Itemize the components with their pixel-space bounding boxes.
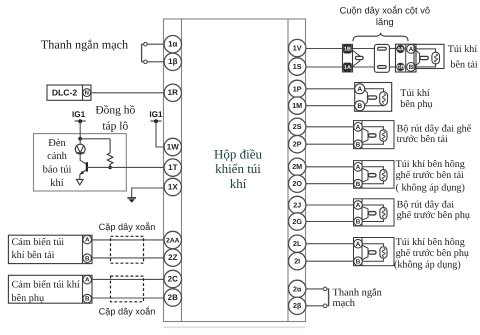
svg-text:2β: 2β xyxy=(293,301,302,310)
svg-text:1A: 1A xyxy=(344,65,351,71)
terminal 1β xyxy=(164,53,181,70)
svg-text:A: A xyxy=(85,237,90,244)
wire junction to resistor branch xyxy=(80,138,110,140)
wire junction to lamp xyxy=(79,139,81,145)
svg-text:2I: 2I xyxy=(294,257,300,266)
wire 2O to squib B xyxy=(306,183,354,185)
svg-text:( không áp dụng): ( không áp dụng) xyxy=(396,182,465,193)
svg-text:ghế trước bên phụ: ghế trước bên phụ xyxy=(397,210,470,221)
junction at lamp top xyxy=(78,137,82,141)
wire 1P to passenger squib A xyxy=(306,88,355,90)
squib connector (steering wheel side) xyxy=(396,44,417,72)
pin 1B xyxy=(344,45,352,53)
wire 1β to short bar xyxy=(147,61,164,63)
squib connector and inflator box (2M/2O) xyxy=(354,161,395,189)
svg-text:1X: 1X xyxy=(168,182,178,191)
svg-text:IG1: IG1 xyxy=(72,110,86,119)
svg-text:2O: 2O xyxy=(292,179,302,188)
wire 1S to spiral connector xyxy=(306,66,343,68)
terminal 1V xyxy=(289,39,306,56)
wire 2J to squib A xyxy=(306,204,354,206)
svg-text:B: B xyxy=(356,181,361,188)
terminal 2Z xyxy=(164,249,181,266)
pin B (2S/2P) xyxy=(354,140,363,149)
ghost shadow line under ECU box xyxy=(164,326,306,328)
svg-text:1R: 1R xyxy=(168,88,178,97)
svg-text:(không áp dụng): (không áp dụng) xyxy=(394,259,461,270)
wire 2β to short bar xyxy=(306,305,323,307)
terminal 2α xyxy=(289,280,306,297)
svg-text:khí: khí xyxy=(230,176,247,191)
svg-text:Bộ rút dây đai: Bộ rút dây đai xyxy=(397,199,455,210)
svg-text:bên tải: bên tải xyxy=(451,60,478,71)
svg-text:1S: 1S xyxy=(293,62,302,71)
front airbag sensor box driver side (Cảm biến túi khí bên tải) xyxy=(8,235,92,263)
svg-text:1M: 1M xyxy=(292,101,302,110)
svg-text:Đồng hồ: Đồng hồ xyxy=(95,105,135,117)
svg-text:A: A xyxy=(409,46,414,53)
junction base/resistor xyxy=(108,166,112,170)
warning lamp L1 xyxy=(75,144,85,154)
svg-text:khí: khí xyxy=(50,178,64,189)
svg-text:khí bên tải: khí bên tải xyxy=(12,250,55,261)
resistor R1 (lamp shunt) xyxy=(107,139,113,168)
wire 2α to short bar xyxy=(306,288,323,290)
pin 1A xyxy=(344,63,352,71)
wire 1M to passenger squib B xyxy=(306,105,355,107)
terminal 1S xyxy=(289,58,306,75)
svg-text:2Z: 2Z xyxy=(168,253,177,262)
svg-text:B: B xyxy=(85,296,90,303)
label for 2S/2P row xyxy=(397,124,472,145)
svg-text:A: A xyxy=(356,124,361,131)
label: Túi khí bên tải xyxy=(448,44,478,71)
label: Thanh ngắn mạch (right) xyxy=(333,288,383,309)
wire IG1 right down to 1W xyxy=(156,121,164,147)
wire 1V to spiral connector xyxy=(306,48,343,50)
svg-text:DLC-2: DLC-2 xyxy=(52,88,78,98)
wire 2P to squib B xyxy=(306,143,354,145)
svg-text:Túi khí bên hông: Túi khí bên hông xyxy=(396,237,465,248)
terminal 2C xyxy=(164,270,181,287)
pin B (2J/2G) xyxy=(354,217,363,226)
wire 2S to squib A xyxy=(306,126,354,128)
terminal 1X xyxy=(164,178,181,195)
terminal 2G xyxy=(289,213,306,230)
label: Đèn cảnh báo túi khí xyxy=(43,138,72,189)
svg-text:1β: 1β xyxy=(168,57,177,66)
svg-text:mạch: mạch xyxy=(333,298,356,309)
pin N of DLC-2 xyxy=(83,89,91,97)
pin A (driver squib) xyxy=(407,45,416,54)
svg-text:2S: 2S xyxy=(293,122,302,131)
svg-text:B: B xyxy=(357,103,362,110)
label for 2M/2O row xyxy=(396,159,465,194)
svg-text:khiển túi: khiển túi xyxy=(215,161,261,176)
label: Hộp điều khiển túi khí xyxy=(214,147,263,191)
svg-text:A: A xyxy=(85,277,90,284)
svg-text:1W: 1W xyxy=(167,142,179,151)
wire IG1 left down into lamp box xyxy=(79,121,81,139)
svg-text:Cảm biến túi khí: Cảm biến túi khí xyxy=(12,279,80,290)
svg-text:2AA: 2AA xyxy=(166,237,180,244)
wire connector to spiral cable (top) xyxy=(353,48,375,50)
pin A (2L/2I) xyxy=(354,239,363,248)
svg-text:1B: 1B xyxy=(344,47,351,53)
svg-text:4A: 4A xyxy=(397,47,404,53)
short-circuit bar (left) xyxy=(142,42,148,63)
DLC-2 connector box xyxy=(47,85,91,100)
wire transistor base to 1T xyxy=(87,166,164,168)
pin 4A xyxy=(396,45,404,53)
spiral cable connector (vehicle side) xyxy=(343,44,353,72)
svg-text:cảnh: cảnh xyxy=(47,151,68,162)
wire emitter to ground xyxy=(79,175,81,180)
svg-text:2G: 2G xyxy=(292,217,302,226)
pin A (2M/2O) xyxy=(354,163,363,172)
wire sensor A to 2C xyxy=(92,278,165,280)
pin A (2S/2P) xyxy=(354,123,363,132)
svg-text:B: B xyxy=(356,219,361,226)
svg-text:2L: 2L xyxy=(293,239,302,248)
terminal 2AA xyxy=(164,231,181,248)
svg-text:A: A xyxy=(356,241,361,248)
svg-text:1T: 1T xyxy=(168,163,177,172)
svg-text:Túi khí: Túi khí xyxy=(400,88,430,99)
pin GB xyxy=(396,63,404,71)
pin B (driver squib) xyxy=(407,63,416,72)
wire sensor B to 2Z xyxy=(92,257,165,259)
wire DLC-2 N to 1R xyxy=(91,92,164,94)
wire 2L to squib A xyxy=(306,243,354,245)
svg-text:lăng: lăng xyxy=(376,16,394,27)
wire spiral cable to squib connector (bottom) xyxy=(389,66,396,68)
svg-text:trước bên tải: trước bên tải xyxy=(397,134,448,145)
terminal 2O xyxy=(289,175,306,192)
svg-text:Túi khí bên hông: Túi khí bên hông xyxy=(396,159,465,170)
ground (emitter, hollow arrow) xyxy=(77,179,84,185)
wire 1X to ground xyxy=(132,188,165,197)
svg-text:Đèn: Đèn xyxy=(48,138,66,149)
power tap IG1 (left) xyxy=(72,110,86,123)
terminal 2I xyxy=(289,253,306,270)
twisted pair (dashed) passenger sensor xyxy=(111,276,144,302)
spiral cable body xyxy=(374,44,389,72)
terminal 2β xyxy=(289,297,306,314)
pin B (passenger sensor) xyxy=(83,294,92,303)
terminal 2S xyxy=(289,118,306,135)
twisted pair (dashed) driver sensor xyxy=(111,236,144,263)
wire 2G to squib B xyxy=(306,221,354,223)
svg-text:B: B xyxy=(356,258,361,265)
svg-text:2J: 2J xyxy=(293,200,301,209)
svg-text:A: A xyxy=(356,202,361,209)
svg-text:A: A xyxy=(357,86,362,93)
svg-text:B: B xyxy=(356,141,361,148)
svg-text:2P: 2P xyxy=(293,140,302,149)
wire 2I to squib B xyxy=(306,260,354,262)
svg-text:1V: 1V xyxy=(293,44,302,53)
terminal 1M xyxy=(289,97,306,114)
label: Cuộn dây xoắn cột vô lăng xyxy=(339,4,430,27)
svg-text:ghế trước bên tải: ghế trước bên tải xyxy=(396,170,464,181)
wire spiral cable to squib connector (top) xyxy=(389,48,396,50)
terminal 2B xyxy=(164,289,181,306)
wire sensor A to 2AA xyxy=(92,239,165,241)
svg-text:Cảm biến túi: Cảm biến túi xyxy=(12,237,65,248)
power tap IG1 (right) xyxy=(149,110,163,123)
wire sensor B to 2B xyxy=(92,297,165,299)
pin B (passenger squib) xyxy=(355,101,365,111)
wire 1α to short bar xyxy=(147,43,164,45)
pin A (passenger squib) xyxy=(355,84,365,94)
label: Đồng hồ táp lô xyxy=(95,105,135,133)
terminal 1α xyxy=(164,36,181,53)
svg-text:Túi khí: Túi khí xyxy=(448,44,478,55)
passenger airbag squib box (Túi khí bên phụ) xyxy=(355,83,392,112)
svg-text:N: N xyxy=(85,90,89,97)
terminal 1P xyxy=(289,80,306,97)
terminal 1T xyxy=(164,159,181,176)
squib connector and inflator box (2J/2G) xyxy=(354,199,395,226)
transistor Q1 (lamp driver) xyxy=(80,162,87,174)
front airbag sensor box passenger side (Cảm biến túi khí bên phụ) xyxy=(8,275,92,304)
airbag ECU box (Hộp điều khiển túi khí) xyxy=(164,19,306,322)
label for 2J/2G row xyxy=(397,199,470,221)
label: Túi khí bên phụ xyxy=(400,88,432,110)
svg-text:bên phụ: bên phụ xyxy=(12,293,45,304)
wire lamp to transistor collector xyxy=(80,154,87,164)
svg-text:táp lô: táp lô xyxy=(102,121,128,133)
pin A (passenger sensor) xyxy=(83,275,92,284)
terminal 1W xyxy=(164,138,181,155)
svg-text:B: B xyxy=(85,255,90,262)
pin B (2L/2I) xyxy=(354,257,363,266)
terminal 1R xyxy=(164,84,181,101)
svg-text:1P: 1P xyxy=(293,84,302,93)
svg-text:báo túi: báo túi xyxy=(43,165,72,176)
svg-text:1α: 1α xyxy=(168,40,177,49)
svg-text:Cuộn dây xoắn cột vô: Cuộn dây xoắn cột vô xyxy=(339,4,430,15)
svg-text:Hộp điều: Hộp điều xyxy=(214,147,263,162)
short-circuit bar (right) xyxy=(323,287,328,308)
svg-text:2M: 2M xyxy=(292,162,302,171)
brace over spiral cable xyxy=(353,34,408,42)
squib connector and inflator box (2S/2P) xyxy=(354,121,395,149)
terminal 2P xyxy=(289,136,306,153)
ground (1X) xyxy=(127,198,136,203)
airbag warning lamp box (Đèn cảnh báo túi khí) xyxy=(34,134,127,191)
svg-text:Thanh ngắn mạch: Thanh ngắn mạch xyxy=(41,38,128,52)
svg-text:A: A xyxy=(356,164,361,171)
svg-text:2α: 2α xyxy=(293,284,302,293)
pin A (driver sensor) xyxy=(83,235,92,244)
svg-text:Cặp dây xoắn: Cặp dây xoắn xyxy=(99,222,156,232)
svg-text:Cặp dây xoắn: Cặp dây xoắn xyxy=(99,307,156,317)
svg-text:bên phụ: bên phụ xyxy=(400,99,432,110)
pin B (2M/2O) xyxy=(354,179,363,188)
squib connector and inflator box (2L/2I) xyxy=(354,238,395,266)
svg-text:2C: 2C xyxy=(168,274,178,283)
label for 2L/2I row xyxy=(394,237,469,270)
terminal 2J xyxy=(289,196,306,213)
pin B (driver sensor) xyxy=(83,254,92,263)
wire connector to spiral cable (bottom) xyxy=(353,66,375,68)
terminal 2M xyxy=(289,158,306,175)
svg-text:IG1: IG1 xyxy=(149,110,163,119)
svg-text:B: B xyxy=(409,64,414,71)
svg-text:2B: 2B xyxy=(168,293,178,302)
shorting clip (spiral connector) xyxy=(353,50,364,66)
svg-text:GB: GB xyxy=(397,65,405,71)
svg-text:ghế trước bên phụ: ghế trước bên phụ xyxy=(396,248,469,259)
terminal 2L xyxy=(289,235,306,252)
pin A (2J/2G) xyxy=(354,201,363,210)
wire 2M to squib A xyxy=(306,166,354,168)
driver airbag squib box (Túi khí bên tải) xyxy=(414,44,444,68)
